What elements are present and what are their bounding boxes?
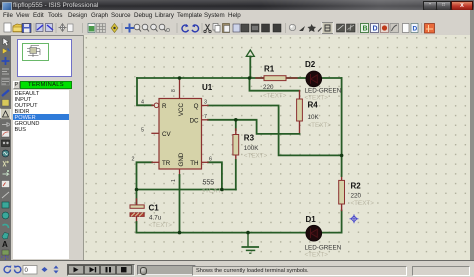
svg-text:C1: C1 [149, 204, 160, 213]
angle box [23, 266, 37, 275]
wire D1 right segment [322, 211, 342, 233]
window icon [2, 2, 12, 11]
copy [213, 24, 218, 31]
lead R1 left [256, 77, 264, 79]
svg-text:<TEXT>: <TEXT> [305, 252, 329, 259]
block move icon [233, 24, 240, 32]
text script [2, 79, 9, 84]
blue D icon [371, 24, 379, 33]
title bar [0, 0, 474, 10]
editor canvas [84, 35, 470, 260]
sim button panel [67, 264, 135, 276]
junction node GND pin rail [178, 231, 182, 235]
wire label icons [337, 24, 345, 32]
wire R3 bottom [235, 160, 237, 190]
svg-text:4.7u: 4.7u [149, 215, 162, 222]
terminals list [13, 90, 69, 259]
wire C1 to bottom rail [136, 222, 138, 233]
svg-text:GND: GND [178, 152, 185, 166]
2d circle [2, 212, 9, 219]
capacitor C1 [130, 204, 172, 230]
voltage probe [3, 161, 6, 167]
wire TH jog [208, 162, 222, 189]
sep [177, 23, 178, 33]
svg-text:DC: DC [190, 117, 199, 124]
power terminal [246, 50, 254, 56]
magnifier all [151, 24, 157, 30]
bus [2, 90, 9, 96]
svg-text:<TEXT>: <TEXT> [263, 93, 287, 100]
svg-text:10K: 10K [308, 114, 320, 121]
wire label [2, 69, 9, 74]
junction node TH net [220, 188, 224, 192]
green page [88, 24, 95, 33]
import sheet [36, 24, 43, 32]
preview pane [17, 39, 72, 77]
IC body [159, 99, 202, 170]
redo [192, 25, 199, 32]
sep [285, 23, 286, 33]
junction node VCC pin8 [178, 76, 182, 80]
arrow tool [299, 26, 305, 31]
lead R1 right [286, 77, 297, 79]
wire GND pin to bottom rail [179, 175, 181, 233]
svg-text:D1: D1 [306, 215, 317, 224]
svg-text:1: 1 [171, 179, 177, 182]
wire power stub [249, 57, 251, 79]
magnifier - [142, 24, 148, 30]
lead R4 top [299, 91, 301, 99]
svg-text:<TEXT>: <TEXT> [149, 222, 173, 229]
window buttons [423, 1, 437, 11]
right window border [470, 10, 474, 277]
export sheet [46, 24, 53, 32]
cut [206, 24, 210, 31]
rotate cw [4, 266, 10, 272]
op IC U1 555 [132, 79, 226, 233]
TERMINALS header [20, 81, 72, 89]
sep [82, 23, 83, 33]
P button [13, 81, 20, 89]
sep [56, 23, 57, 33]
lead R2 top [341, 175, 343, 180]
left object selector panel [11, 36, 84, 260]
ARES orange icon [425, 24, 435, 34]
junction node Q R2 D2 [340, 154, 344, 158]
generator [2, 150, 9, 157]
current probe [3, 172, 9, 176]
toolbar [0, 21, 474, 36]
junction plus [2, 57, 10, 65]
svg-text:5: 5 [141, 128, 144, 134]
lead R3 top [235, 129, 237, 135]
new doc [4, 23, 11, 32]
gray fox icon [390, 24, 399, 33]
pin stub R p4 with bubble [152, 104, 154, 106]
svg-text:<TEXT>: <TEXT> [308, 122, 332, 129]
lead R2 bottom [341, 204, 343, 211]
rotate ccw [14, 266, 20, 272]
sep [358, 23, 359, 33]
magnifier area [159, 24, 165, 30]
menu bar [0, 10, 474, 22]
pin stub DC p7 [202, 119, 209, 121]
paste [223, 24, 230, 33]
ground symbol [242, 233, 258, 254]
junction node DC R3 [234, 118, 238, 122]
wire D2 right to corner [322, 77, 342, 79]
magnifier + [134, 24, 140, 30]
sep [34, 23, 35, 33]
left mode toolbar [0, 36, 11, 260]
2d line [2, 192, 9, 198]
grid icon [97, 24, 106, 33]
svg-text:R2: R2 [351, 182, 362, 191]
wire R3 top stub [235, 120, 237, 130]
resistor R2 [339, 180, 345, 204]
junction node C1 TR [135, 188, 139, 192]
green B icon [361, 24, 369, 33]
svg-text:R1: R1 [264, 65, 275, 74]
svg-text:R4: R4 [308, 101, 319, 110]
sep [202, 23, 203, 33]
mirror y [54, 266, 59, 274]
ball icon [289, 24, 295, 30]
wire C1 net horizontal [137, 189, 236, 191]
blue page [411, 24, 418, 33]
instrument [2, 181, 10, 188]
selection arrow [3, 38, 9, 46]
status field 1 [192, 266, 407, 276]
wire left drop to R pin [137, 78, 152, 105]
mirror x [42, 267, 48, 272]
2d marker [1, 256, 9, 261]
svg-text:LED-GREEN: LED-GREEN [305, 88, 342, 95]
windmill [60, 24, 65, 32]
svg-text:7: 7 [204, 114, 207, 120]
lead C1 top [136, 190, 138, 206]
svg-text:R: R [162, 103, 167, 110]
junction node power R1 [248, 76, 252, 80]
svg-text:U1: U1 [202, 83, 213, 92]
device icon [2, 100, 9, 107]
wire VCC to R4 jog [250, 78, 300, 91]
star tool [308, 24, 317, 32]
svg-text:TR: TR [162, 160, 171, 167]
pin stub TR p2 [152, 161, 159, 163]
svg-text:A: A [2, 240, 8, 249]
svg-text:TH: TH [190, 160, 198, 167]
bottom bar [0, 260, 474, 277]
svg-text:100K: 100K [244, 145, 260, 152]
pin stub VCC p8 [179, 79, 181, 99]
svg-text:D: D [373, 26, 378, 33]
sep [421, 23, 422, 33]
resistor R4 [297, 99, 303, 121]
pin numbers [132, 89, 213, 182]
wire R2 top from junction [341, 155, 343, 176]
lead C1 bottom [136, 216, 138, 223]
svg-text:6: 6 [209, 157, 212, 163]
svg-text:CV: CV [162, 131, 171, 138]
lead R4 bottom [299, 121, 301, 134]
component arrow yellow [3, 48, 8, 54]
svg-text:LED-GREEN: LED-GREEN [305, 245, 342, 252]
resistor R1 [264, 76, 286, 81]
status field 2 [412, 266, 470, 276]
origin marker blue [350, 215, 358, 223]
svg-text:2: 2 [132, 157, 135, 163]
wire top rail VCC [137, 77, 250, 79]
svg-text:R3: R3 [244, 134, 255, 143]
2d arc [3, 224, 9, 228]
svg-text:D: D [413, 26, 418, 33]
svg-text:<TEXT>: <TEXT> [351, 200, 375, 207]
yellow marker [111, 24, 118, 33]
pin names [162, 102, 199, 166]
wire TR jog [137, 162, 153, 189]
svg-text:Q: Q [194, 103, 199, 110]
undo [182, 25, 189, 32]
resistor R3 [233, 135, 239, 156]
wrench [318, 24, 326, 32]
dark card icons [241, 24, 249, 32]
svg-text:VCC: VCC [178, 102, 185, 116]
lead R3 bottom [235, 155, 237, 161]
graph mode [2, 131, 10, 138]
knob track [137, 265, 196, 275]
wire DC to R4 bottom [208, 120, 300, 134]
pin mode [2, 122, 7, 127]
wire Q output [208, 106, 342, 156]
svg-text:3: 3 [204, 100, 207, 106]
pin stub Q p3 [202, 105, 209, 107]
svg-text:555: 555 [203, 180, 215, 187]
save floppy [22, 24, 31, 33]
sep [122, 23, 123, 33]
small page [68, 24, 74, 32]
wire right drop D2 to junction [341, 78, 343, 155]
pin stub TH p6 [202, 161, 209, 163]
pressed button [322, 23, 333, 34]
svg-text:<TEXT>: <TEXT> [244, 153, 268, 160]
white page 2 [403, 24, 410, 33]
svg-text:4: 4 [141, 100, 144, 106]
2d symbol [2, 250, 9, 255]
LED D2 [305, 60, 342, 102]
2d path [2, 233, 9, 240]
svg-text:D2: D2 [305, 60, 316, 69]
svg-text:8: 8 [171, 89, 177, 92]
wire bottom rail [137, 232, 307, 234]
2d box [2, 202, 9, 208]
svg-text:220: 220 [351, 193, 362, 200]
pin stub GND p1 [179, 169, 181, 176]
tape [2, 140, 10, 147]
terminal mode pressed [1, 109, 11, 120]
svg-text:B: B [363, 26, 368, 33]
red O icon [381, 24, 389, 33]
pin stub CV p5 [152, 132, 159, 134]
wire R1 row [250, 77, 307, 79]
junction node ground rail [246, 231, 250, 235]
blue plus cursor [125, 24, 134, 33]
LED D1 [305, 215, 342, 259]
open folder [13, 24, 22, 32]
